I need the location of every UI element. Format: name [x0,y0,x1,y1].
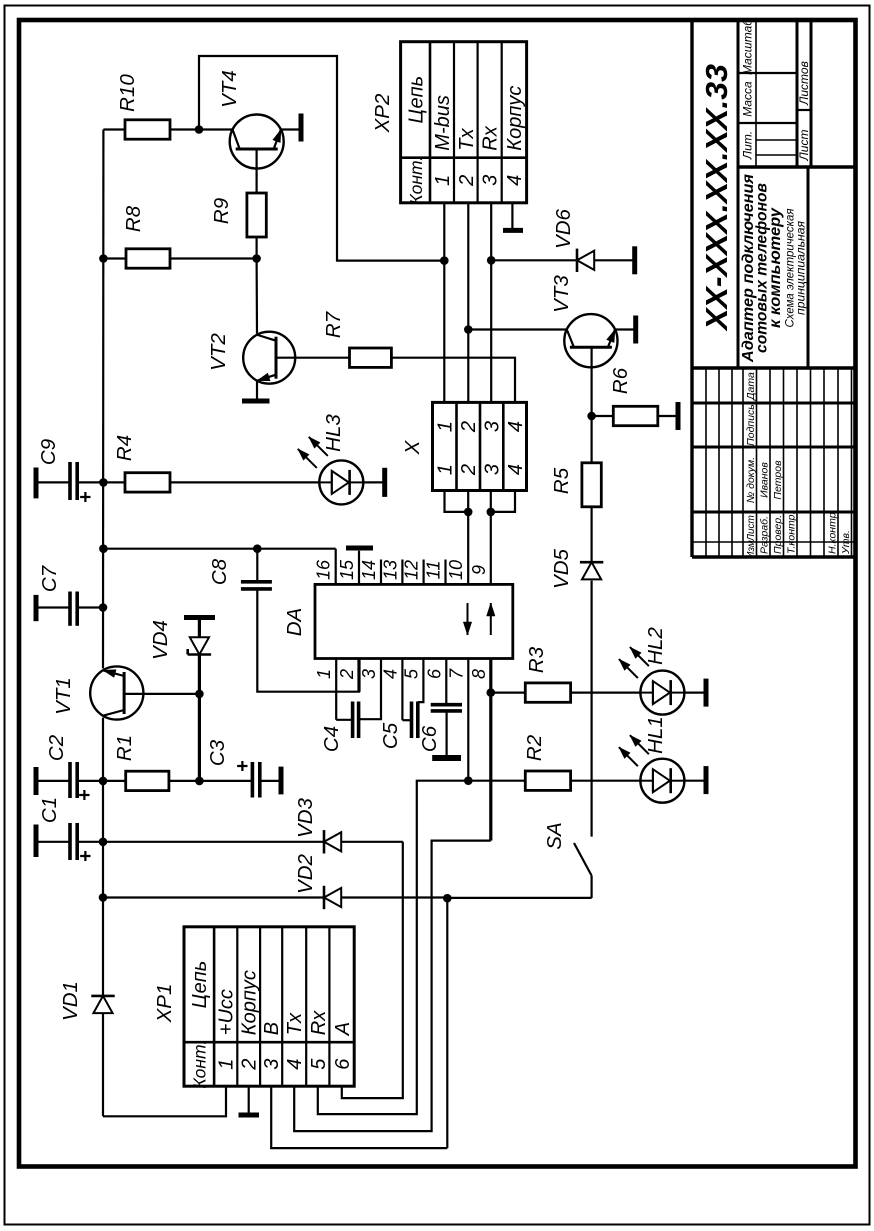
svg-text:4: 4 [505,421,527,432]
svg-text:R4: R4 [113,435,136,461]
svg-text:XP1: XP1 [153,984,176,1024]
svg-text:R3: R3 [525,646,548,673]
svg-text:R6: R6 [609,367,632,394]
svg-text:Масштаб: Масштаб [741,18,755,75]
svg-text:2: 2 [456,175,478,187]
svg-text:VT2: VT2 [207,333,230,371]
svg-text:R7: R7 [322,310,345,338]
svg-text:HL1: HL1 [644,716,667,754]
svg-text:R2: R2 [523,734,546,761]
svg-text:12: 12 [402,560,422,580]
svg-text:+: + [75,850,97,862]
svg-text:принципиальная: принципиальная [794,220,808,315]
svg-text:Т.контр.: Т.контр. [786,512,798,554]
svg-text:HL2: HL2 [644,627,667,665]
svg-text:4: 4 [504,175,526,186]
svg-text:3: 3 [261,1059,283,1070]
svg-text:4: 4 [380,669,400,679]
svg-text:C9: C9 [37,439,60,465]
svg-text:C8: C8 [208,558,231,585]
svg-text:9: 9 [469,565,489,575]
svg-text:VT3: VT3 [550,275,573,313]
svg-text:VD5: VD5 [550,548,573,588]
svg-text:Лист: Лист [797,130,811,162]
svg-text:XP2: XP2 [371,93,394,133]
svg-text:2: 2 [337,669,357,680]
svg-text:Дата: Дата [745,372,757,401]
svg-text:+: + [232,760,254,772]
svg-text:+: + [74,789,96,801]
svg-text:Конт.: Конт. [190,1040,210,1089]
svg-text:R8: R8 [122,205,145,232]
svg-text:C1: C1 [38,797,61,823]
svg-text:+: + [75,491,97,503]
svg-text:R1: R1 [113,735,136,761]
svg-text:Корпус: Корпус [239,970,261,1035]
svg-text:R10: R10 [116,74,139,112]
svg-text:5: 5 [402,668,422,679]
svg-text:Корпус: Корпус [504,86,526,151]
svg-text:Петров: Петров [772,460,784,500]
svg-text:14: 14 [359,560,379,580]
svg-text:Разраб.: Разраб. [759,516,771,554]
svg-text:C3: C3 [206,739,229,766]
svg-text:Лист: Лист [746,515,757,542]
svg-text:5: 5 [308,1058,330,1070]
svg-text:10: 10 [446,560,466,580]
svg-text:2: 2 [458,464,480,476]
svg-text:3: 3 [480,175,502,186]
svg-text:1: 1 [434,421,456,432]
svg-text:Tx: Tx [284,1012,306,1035]
svg-text:4: 4 [505,464,527,475]
svg-text:C5: C5 [379,722,402,749]
svg-text:3: 3 [481,421,503,432]
svg-text:VD1: VD1 [59,981,82,1021]
svg-text:Подпись: Подпись [745,404,757,446]
svg-text:Н.контр.: Н.контр. [827,510,839,554]
svg-text:Иванов: Иванов [759,462,771,498]
svg-text:X: X [401,439,424,455]
svg-text:к компьютеру: к компьютеру [767,207,784,328]
svg-text:4: 4 [284,1059,306,1070]
svg-text:Утв.: Утв. [840,530,852,555]
svg-text:11: 11 [424,561,444,580]
svg-text:VD4: VD4 [149,620,172,660]
svg-text:A: A [332,1022,354,1036]
svg-text:C2: C2 [45,734,68,761]
svg-text:1: 1 [432,175,454,186]
svg-text:13: 13 [380,560,400,580]
svg-text:1: 1 [216,1059,238,1070]
svg-text:Провер.: Провер. [772,515,784,554]
svg-text:DA: DA [283,608,306,636]
svg-text:2: 2 [239,1059,261,1071]
svg-text:VD2: VD2 [294,853,317,893]
svg-text:№ докум.: № докум. [745,457,757,503]
svg-text:VD6: VD6 [552,208,575,248]
svg-text:6: 6 [332,1058,354,1070]
svg-text:Масса: Масса [741,81,755,117]
svg-text:Лит.: Лит. [741,131,755,160]
svg-text:1: 1 [434,464,456,475]
svg-text:C6: C6 [418,725,441,752]
svg-text:Tx: Tx [456,127,478,150]
svg-text:2: 2 [458,421,480,433]
svg-text:Изм: Изм [746,540,757,559]
svg-text:15: 15 [337,559,357,580]
svg-text:8: 8 [469,669,489,679]
svg-text:M-bus: M-bus [432,95,454,151]
svg-text:6: 6 [424,668,444,679]
svg-text:R9: R9 [210,198,233,224]
svg-text:VT4: VT4 [218,70,241,108]
svg-text:R5: R5 [550,467,573,494]
svg-text:C7: C7 [38,564,61,592]
svg-text:Конт.: Конт. [406,156,426,205]
svg-text:Цепь: Цепь [405,76,427,124]
svg-text:Цепь: Цепь [189,961,211,1009]
svg-text:VT1: VT1 [52,677,75,715]
svg-text:B: B [261,1022,283,1035]
svg-text:XX-XXX.XX.XX.33: XX-XXX.XX.XX.33 [699,64,734,332]
svg-text:HL3: HL3 [322,414,345,452]
svg-text:C4: C4 [320,726,343,752]
svg-text:16: 16 [314,559,334,580]
svg-text:3: 3 [359,669,379,679]
svg-text:Rx: Rx [308,1010,330,1035]
svg-text:+Ucc: +Ucc [216,989,238,1035]
svg-text:VD3: VD3 [294,797,317,837]
svg-text:Листов: Листов [797,61,811,106]
svg-text:Rx: Rx [480,125,502,150]
svg-text:SA: SA [543,822,566,849]
svg-text:3: 3 [481,464,503,475]
svg-text:7: 7 [446,668,466,679]
svg-text:1: 1 [314,669,334,679]
